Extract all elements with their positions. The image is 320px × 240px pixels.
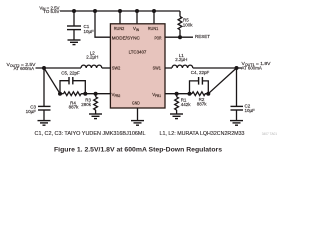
resistor R3 280k: [81, 94, 97, 114]
capacitor C1: [67, 11, 94, 40]
wire L2 to SW2 pin: [102, 67, 111, 69]
svg-text:RUN1: RUN1: [148, 26, 159, 31]
svg-text:Figure 1. 2.5V/1.8V at 600mA S: Figure 1. 2.5V/1.8V at 600mA Step-Down R…: [54, 146, 222, 153]
resistor R2 887k: [192, 92, 208, 107]
svg-text:3407 TA01: 3407 TA01: [262, 132, 278, 136]
wire RUN2 stub: [119, 11, 121, 24]
svg-text:L1, L2: MURATA LQH32CN2R2M33: L1, L2: MURATA LQH32CN2R2M33: [160, 131, 245, 137]
svg-text:887k: 887k: [69, 105, 80, 110]
resistor R4 887k: [64, 92, 82, 110]
svg-text:POR: POR: [155, 35, 162, 40]
wire feedback diagonal left: [44, 68, 60, 94]
op-amp U1 LTC3407: [110, 24, 165, 108]
node VIN label: [39, 5, 59, 14]
wire MODE/SYNC to VIN rail: [95, 11, 111, 37]
svg-text:10µF: 10µF: [84, 29, 95, 34]
junction dot RUN2 tap: [118, 9, 122, 13]
svg-text:C1: C1: [84, 24, 90, 29]
svg-text:2.2µH: 2.2µH: [86, 55, 98, 60]
svg-text:10µF: 10µF: [245, 108, 256, 113]
svg-text:TO 5.5V: TO 5.5V: [43, 9, 59, 14]
svg-text:LTC3407: LTC3407: [129, 49, 147, 54]
junction dot R1 tap: [175, 92, 179, 96]
wire VIN top rail: [60, 10, 180, 12]
svg-text:2.2µH: 2.2µH: [175, 57, 187, 62]
svg-text:C5, 22pF: C5, 22pF: [61, 71, 80, 76]
capacitor C3 output: [26, 68, 51, 121]
wire VFB1 net: [165, 93, 192, 95]
svg-text:C4, 22pF: C4, 22pF: [191, 70, 210, 75]
svg-text:AT 600mA: AT 600mA: [14, 66, 34, 71]
svg-text:SW2: SW2: [112, 66, 121, 71]
junction dot POR/R5: [178, 35, 182, 39]
ground below R3: [89, 114, 102, 119]
inductor L1 2.2uH: [172, 53, 193, 68]
svg-text:AT 600mA: AT 600mA: [242, 65, 262, 70]
svg-text:RESET: RESET: [195, 34, 210, 39]
svg-text:SW1: SW1: [153, 66, 162, 71]
svg-text:280k: 280k: [81, 102, 92, 107]
svg-text:10µF: 10µF: [26, 109, 37, 114]
svg-text:100k: 100k: [183, 22, 194, 27]
resistor R1 442k: [175, 94, 192, 114]
junction dot C1 tap: [72, 9, 76, 13]
junction dot VIN pin tap: [135, 9, 139, 13]
svg-text:442k: 442k: [181, 102, 192, 107]
svg-text:GND: GND: [132, 100, 140, 105]
wire feedback diagonal right: [208, 68, 236, 94]
wire RUN1 stub: [153, 11, 155, 24]
wire R4 to VFB2 pin: [81, 93, 111, 95]
svg-text:C1, C2, C3: TAIYO YUDEN JMK316: C1, C2, C3: TAIYO YUDEN JMK316BJ106ML: [35, 131, 146, 137]
ground below R1: [170, 114, 183, 119]
junction dot R4/C5 left: [58, 92, 62, 96]
ground below C2: [230, 121, 243, 126]
ground below C3: [38, 121, 51, 126]
wire VFB2 net: [60, 93, 64, 95]
junction dot VOUT2 node: [42, 66, 46, 70]
node VOUT2 label: [7, 62, 36, 71]
wire POR to RESET: [165, 36, 193, 38]
svg-text:MODE/SYNC: MODE/SYNC: [112, 35, 140, 40]
junction dot R4/C5 right: [83, 92, 87, 96]
wire GND pin: [137, 108, 139, 121]
junction dot RUN1 tap: [152, 9, 156, 13]
wire VOUT2 to SW2: [36, 67, 82, 69]
inductor L2 2.2uH: [81, 51, 102, 68]
resistor R5 100k pullup: [178, 11, 193, 37]
junction dot R2/C4 right: [206, 92, 210, 96]
junction dot R2/C4 left: [188, 92, 192, 96]
capacitor C2 output: [231, 68, 256, 121]
capacitor C4 22pF: [190, 70, 210, 94]
junction dot MODE/SYNC tap: [93, 9, 97, 13]
svg-text:887k: 887k: [197, 102, 208, 107]
capacitor C5 22pF: [60, 71, 85, 94]
ground below IC: [131, 121, 144, 126]
ground below C1: [68, 40, 81, 45]
wire L1 to VOUT1: [193, 67, 242, 69]
junction dot R3 tap: [94, 92, 98, 96]
node VOUT1 label: [242, 61, 271, 70]
wire VIN pin stub: [136, 11, 138, 24]
junction dot VOUT1 node: [235, 66, 239, 70]
wire SW1 to L1: [165, 67, 172, 69]
svg-text:RUN2: RUN2: [114, 26, 125, 31]
